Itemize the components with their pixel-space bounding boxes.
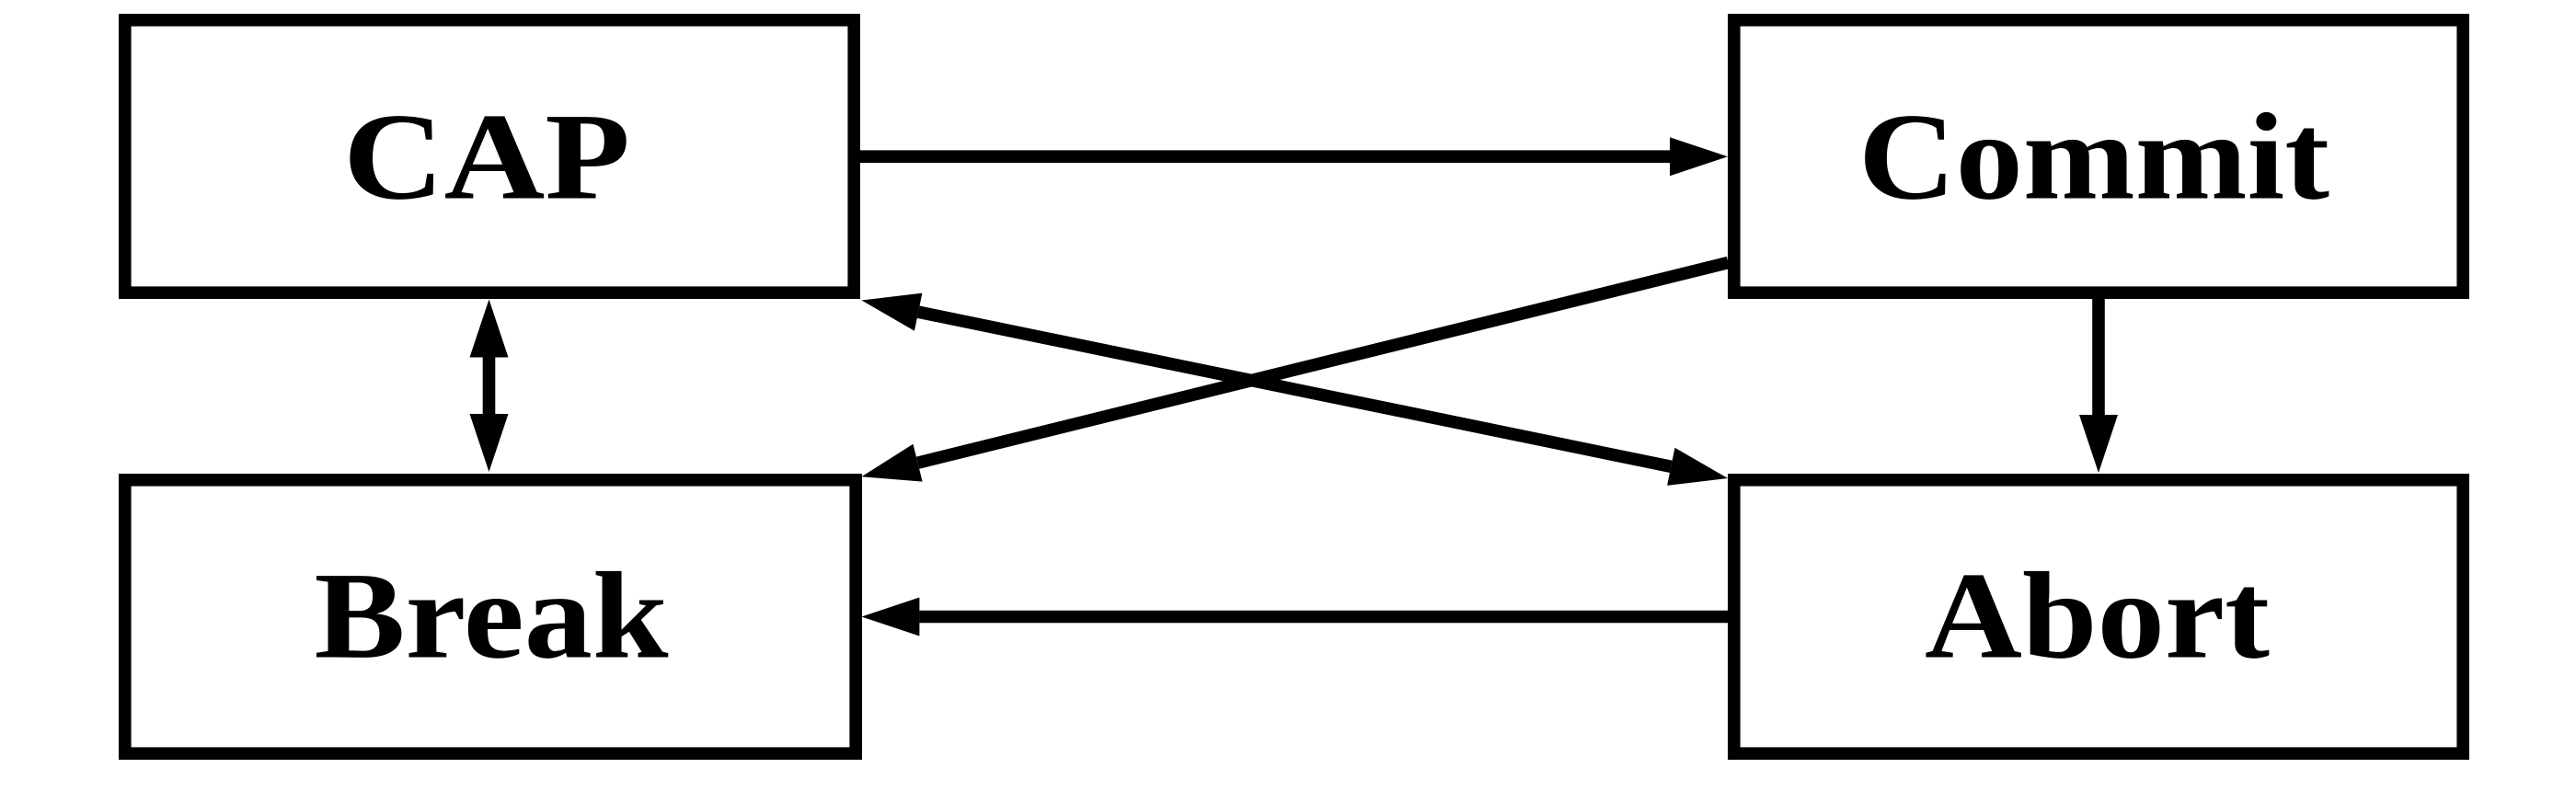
svg-text:Commit: Commit	[1858, 89, 2329, 226]
svg-text:Break: Break	[315, 548, 669, 685]
svg-text:Abort: Abort	[1925, 548, 2270, 685]
svg-text:CAP: CAP	[343, 89, 630, 226]
